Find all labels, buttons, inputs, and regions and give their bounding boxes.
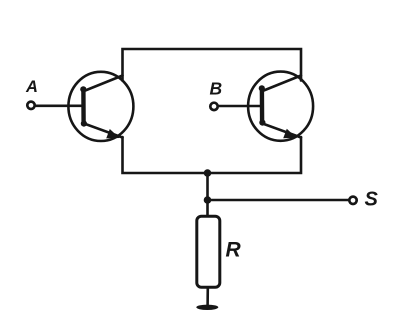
svg-text:R: R xyxy=(226,238,242,261)
svg-text:B: B xyxy=(210,79,223,99)
svg-text:S: S xyxy=(365,188,379,210)
svg-text:A: A xyxy=(25,78,38,96)
